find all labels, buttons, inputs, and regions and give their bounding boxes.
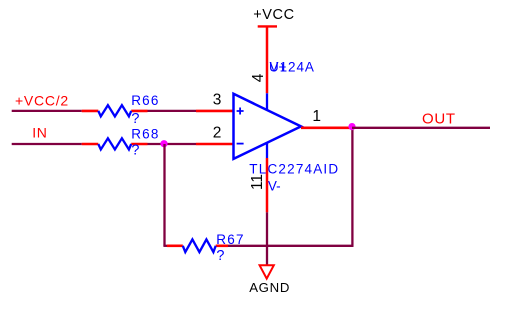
svg-text:V-: V- bbox=[268, 179, 281, 194]
wire feedback left vertical bbox=[163, 144, 165, 246]
pin 2 wire bbox=[196, 143, 234, 146]
svg-text:3: 3 bbox=[213, 91, 222, 108]
resistor R67 bbox=[167, 239, 228, 252]
svg-text:R68: R68 bbox=[131, 127, 159, 142]
wire between R66 and pin 3 bbox=[148, 110, 197, 112]
op-amp plus input marker bbox=[237, 108, 244, 115]
svg-text:TLC2274AID: TLC2274AID bbox=[249, 161, 339, 176]
wire feedback bottom stub bbox=[163, 245, 167, 247]
op-amp U124A triangle bbox=[234, 94, 302, 159]
svg-text:2: 2 bbox=[213, 125, 222, 142]
junction node at inverting input bbox=[160, 140, 167, 147]
pin 11 wire red bbox=[266, 158, 269, 212]
wire AGND vertical bbox=[266, 212, 268, 264]
wire between R68 and pin 2 bbox=[148, 143, 197, 145]
svg-text:OUT: OUT bbox=[422, 110, 456, 127]
power port AGND bbox=[249, 265, 290, 295]
pin 3 wire bbox=[196, 110, 234, 113]
junction node at output bbox=[348, 123, 355, 130]
resistor R66 bbox=[82, 105, 148, 116]
svg-text:?: ? bbox=[131, 143, 139, 159]
wire feedback right vertical bbox=[351, 128, 353, 246]
svg-text:+VCC/2: +VCC/2 bbox=[15, 93, 69, 109]
svg-text:4: 4 bbox=[250, 73, 267, 82]
wire VCC vertical (pin 4 net) bbox=[266, 26, 269, 93]
resistor R68 bbox=[82, 138, 148, 149]
wire IN left bbox=[12, 143, 82, 145]
pin 1 output wire bbox=[301, 127, 352, 130]
power port +VCC bbox=[253, 7, 294, 27]
svg-text:+VCC: +VCC bbox=[253, 7, 294, 23]
op-amp V+ power stub bbox=[266, 93, 268, 110]
svg-text:R66: R66 bbox=[131, 93, 159, 108]
op-amp V- power stub bbox=[266, 143, 268, 158]
svg-text:11: 11 bbox=[249, 174, 266, 190]
svg-text:V+: V+ bbox=[270, 60, 287, 75]
wire +VCC/2 left bbox=[12, 110, 82, 112]
svg-text:AGND: AGND bbox=[249, 280, 290, 295]
svg-text:?: ? bbox=[216, 248, 224, 264]
op-amp minus input marker bbox=[237, 143, 244, 145]
wire OUT bbox=[352, 127, 490, 129]
wire feedback bottom right bbox=[228, 245, 354, 247]
svg-text:?: ? bbox=[131, 111, 139, 127]
svg-text:IN: IN bbox=[32, 124, 47, 140]
svg-text:1: 1 bbox=[312, 108, 321, 125]
